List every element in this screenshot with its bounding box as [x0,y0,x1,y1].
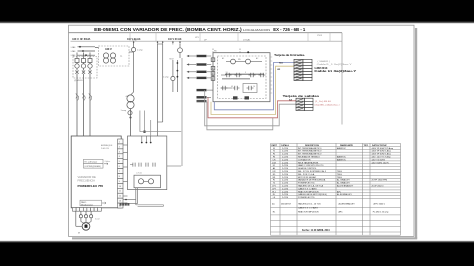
svg-text:2-C1M: 2-C1M [282,186,288,188]
svg-text:TAB.JES.02 1/2 - 16 TCS: TAB.JES.02 1/2 - 16 TCS [298,202,321,205]
svg-text:A PO 2002 0: A PO 2002 0 [374,202,386,205]
svg-text:2-C1M: 2-C1M [282,154,288,156]
svg-text:2-C1M: 2-C1M [282,174,288,176]
svg-text:DESCRIPCION: DESCRIPCION [305,145,319,147]
svg-text:TIPO: TIPO [364,145,369,147]
svg-text:20 HP 1362 RPM: 20 HP 1362 RPM [372,180,388,182]
svg-text:13: 13 [119,201,121,203]
svg-text:TELE: TELE [337,177,343,179]
svg-text:2-C1M: 2-C1M [282,183,288,185]
svg-text:2-C1M: 2-C1M [282,168,288,170]
svg-text:2-C1M: 2-C1M [282,151,288,153]
svg-text:2-C1M: 2-C1M [282,191,288,193]
svg-text:M: M [78,233,80,235]
svg-text:PL 4/60 1 25 amp: PL 4/60 1 25 amp [373,212,390,214]
svg-text:TELE: TELE [337,171,343,173]
svg-text:FABRICANTE: FABRICANTE [340,144,354,147]
svg-text:6: 6 [119,166,120,168]
svg-text:AL. BRADLEY: AL. BRADLEY [337,182,351,185]
svg-text:ARRANQUE: ARRANQUE [101,144,113,147]
svg-text:2-C1M: 2-C1M [282,177,288,179]
svg-text:110 V 60 HZ.: 110 V 60 HZ. [168,38,182,41]
svg-text:PL/1: PL/1 [318,35,323,37]
svg-text:EX - 726 - 6B - 1: EX - 726 - 6B - 1 [273,27,305,32]
svg-text:VARIADOR DE FRECUENCIA: VARIADOR DE FRECUENCIA [298,179,326,182]
svg-text:Cable tri 3a(2)3au-Y: Cable tri 3a(2)3au-Y [314,69,356,73]
svg-text:INT. TERMOMAGNETICO: INT. TERMOMAGNETICO [298,150,322,153]
svg-text:43: 43 [231,86,233,88]
svg-text:3-512: 3-512 [95,219,100,221]
svg-text:(3a)4B5_(14)(1)3au-t: (3a)4B5_(14)(1)3au-t [315,103,341,106]
svg-text:2-C1M: 2-C1M [282,194,288,196]
svg-text:A2: A2 [256,57,258,60]
svg-text:440V 3P 60HZ 5 Amp: 440V 3P 60HZ 5 Amp [372,153,392,156]
svg-text:FRECUENCIA: FRECUENCIA [78,179,96,183]
svg-text:VARIADOR DE: VARIADOR DE [78,175,97,179]
svg-text:14: 14 [253,86,255,88]
svg-text:POWERFLEX 755: POWERFLEX 755 [298,183,315,185]
svg-text:ABB/ROC: ABB/ROC [337,158,347,161]
svg-text:MOTOR 3F 460VAC: MOTOR 3F 460VAC [298,176,317,179]
svg-text:UR: UR [277,69,281,71]
svg-text:AL. BRADLEY: AL. BRADLEY [337,179,351,182]
svg-text:(1_2a) 4B 46: (1_2a) 4B 46 [315,101,332,103]
svg-text:SEL. 3 POS. SOSTENIDO AL 3: SEL. 3 POS. SOSTENIDO AL 3 [298,170,327,173]
svg-text:GUIA DE CONTROL: GUIA DE CONTROL [298,167,317,170]
svg-text:1 amp: 1 amp [137,50,143,52]
svg-text:8: 8 [119,176,120,178]
svg-text:440: 440 [126,96,129,98]
svg-text:13: 13 [226,72,228,74]
svg-text:TABLERO DE 1 A - DE TCA: TABLERO DE 1 A - DE TCA [298,185,324,188]
svg-text:261508717: 261508717 [281,203,292,205]
svg-text:CATALG: CATALG [281,144,289,147]
svg-text:1: 1 [119,141,120,143]
svg-text:3: 3 [119,151,120,153]
svg-text:12: 12 [119,196,121,198]
svg-text:14: 14 [119,205,121,207]
svg-text:440 V 30 60HZ: 440 V 30 60HZ [372,159,386,161]
svg-text:9: 9 [245,72,246,74]
svg-text:4: 4 [119,156,120,158]
svg-text:440 V 60HZ 110/75: 440 V 60HZ 110/75 [372,162,390,164]
svg-text:DATOS TECNIC: DATOS TECNIC [372,144,387,147]
svg-text:4: 4 [212,60,213,62]
svg-text:2-C1M: 2-C1M [282,148,288,150]
svg-text:A1: A1 [222,57,224,60]
svg-text:Tarjeta de Entradas.: Tarjeta de Entradas. [274,53,305,57]
svg-text:(Modbus/otro): (Modbus/otro) [81,203,93,206]
svg-text:LOCAL: LOCAL [243,39,251,42]
svg-text:SEL. POS 2 1-0-A: SEL. POS 2 1-0-A [298,173,315,176]
svg-text:INT. TERMOMAGNETICO: INT. TERMOMAGNETICO [298,153,322,156]
svg-text:(LOPWR)(LMGEN): (LOPWR)(LMGEN) [85,166,102,168]
svg-text:4: 4 [212,78,213,80]
svg-text:11: 11 [119,191,121,193]
svg-text:REACTOR IMPULSOS: REACTOR IMPULSOS [298,190,319,193]
svg-text:4: 4 [212,68,213,70]
svg-text:2-C1M: 2-C1M [282,159,288,161]
svg-text:Fecha : 11 20 ABRIL 2014: Fecha : 11 20 ABRIL 2014 [302,229,330,232]
svg-text:APC: APC [339,211,344,214]
svg-text:CONTACTOR: CONTACTOR [298,158,311,161]
svg-text:5: 5 [119,161,120,163]
svg-text:4: 4 [212,73,213,75]
svg-text:(5): (5) [272,203,275,205]
svg-text:9: 9 [119,181,120,183]
svg-text:440 V. 3F 60HZ.: 440 V. 3F 60HZ. [72,37,91,41]
svg-text:ALLEN BRADLEY: ALLEN BRADLEY [339,202,356,205]
svg-text:440V 3P 60HZ 125 Amp: 440V 3P 60HZ 125 Amp [372,147,394,150]
svg-text:RELE TARJETA ENTR.: RELE TARJETA ENTR. [298,161,319,164]
svg-text:110 V 60 HZ.: 110 V 60 HZ. [127,38,141,41]
svg-text:440 V: 440 V [105,47,112,51]
svg-text:440V 3P 60HZ 5 Amp: 440V 3P 60HZ 5 Amp [372,150,392,153]
svg-text:2-HILOS: 2-HILOS [101,148,109,150]
svg-text:CABLE 3 X 1 2 AWG: CABLE 3 X 1 2 AWG [298,187,317,190]
svg-text:2: 2 [119,146,120,148]
svg-text:20 4P 2002 0: 20 4P 2002 0 [372,186,385,188]
svg-text:POWERFLEX 755: POWERFLEX 755 [298,197,315,199]
svg-text:RELEVADOR TERMICO: RELEVADOR TERMICO [298,156,320,159]
svg-text:2-C1M: 2-C1M [282,165,288,167]
svg-text:INT. TERMOMAGNETICO: INT. TERMOMAGNETICO [298,147,322,150]
svg-text:7: 7 [119,171,120,173]
svg-text:TELE: TELE [337,174,343,176]
svg-text:EB-05EM1 CON VARIADOR DE FREC: EB-05EM1 CON VARIADOR DE FREC. (BOMBA CE… [94,27,242,33]
svg-text:1 amp: 1 amp [121,110,127,112]
svg-text:AL.BI BRADLEY: AL.BI BRADLEY [337,193,352,196]
svg-text:(4) AWG10: (4) AWG10 [74,79,83,82]
svg-text:LOCALIZACION: LOCALIZACION [243,28,270,32]
svg-text:ABB/ROC: ABB/ROC [337,156,347,159]
svg-text:PART: PART [272,144,278,147]
svg-text:2-C1M: 2-C1M [282,197,288,199]
svg-text:L 29-41: L 29-41 [136,173,142,175]
svg-text:ABB/ROC: ABB/ROC [337,147,347,150]
svg-text:2-C1M: 2-C1M [282,171,288,173]
svg-text:2-C1M: 2-C1M [282,157,288,159]
svg-text:2-C1M: 2-C1M [282,188,288,190]
svg-text:2-C1M: 2-C1M [282,162,288,164]
svg-text:Cables: Cables [105,161,111,163]
svg-text:ALLEN BRADLEY: ALLEN BRADLEY [337,185,354,188]
svg-text:2-C1M: 2-C1M [282,180,288,182]
svg-text:1CR: 1CR [272,162,277,164]
svg-text:REACTOR IMPULSOS: REACTOR IMPULSOS [298,211,319,214]
svg-text:LAMP. 2 CIRCUITO PILOTO: LAMP. 2 CIRCUITO PILOTO [298,164,324,167]
svg-text:440 / 110 V 75 T Amp: 440 / 110 V 75 T Amp [372,156,392,159]
svg-text:POWERFLEX 755: POWERFLEX 755 [78,184,104,188]
svg-text:CABLE 3 X 1 72 AWG: CABLE 3 X 1 72 AWG [298,207,318,210]
svg-text:1 amp: 1 amp [163,77,169,79]
svg-text:Tarjeta de salidas: Tarjeta de salidas [283,94,320,98]
svg-text:APC: APC [337,190,342,193]
svg-text:10: 10 [119,186,121,188]
svg-text:R 1 a Arranque: R 1 a Arranque [85,161,98,164]
svg-text:CABLE/LGB DE MOTOR(208.0): CABLE/LGB DE MOTOR(208.0) [298,193,327,196]
svg-text:( 34AB11 ): ( 34AB11 ) [318,60,331,63]
